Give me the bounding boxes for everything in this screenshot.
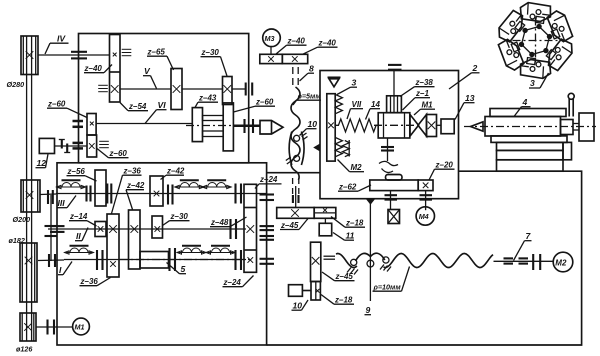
roller mid	[367, 260, 374, 267]
label 12	[36, 154, 49, 168]
clamp cross box	[388, 210, 400, 224]
sleeve between z43 and z60	[203, 116, 224, 121]
svg-text:Ø280: Ø280	[7, 80, 25, 89]
gear bar z40 right	[282, 54, 307, 63]
pawl housing	[386, 175, 403, 181]
coupling M1 shaft	[48, 320, 55, 335]
svg-text:z–60: z–60	[109, 149, 128, 158]
svg-text:VII: VII	[352, 100, 363, 109]
screw stub	[573, 124, 579, 131]
gear z30	[223, 77, 233, 105]
label IV	[45, 34, 69, 55]
label z24 top	[255, 175, 282, 189]
label z40 m3 left	[276, 37, 307, 55]
em clutch row I mid	[177, 246, 206, 254]
svg-text:M4: M4	[419, 212, 429, 221]
sliding gear block z40/z54	[110, 35, 121, 103]
shaft III from pulley	[40, 193, 56, 196]
svg-text:II: II	[76, 231, 81, 241]
coupling bars row III mid	[168, 185, 173, 205]
gear z56	[95, 170, 106, 206]
gear z43	[192, 108, 202, 142]
svg-text:12: 12	[37, 158, 47, 168]
quill body	[485, 117, 561, 137]
svg-text:z–48: z–48	[210, 218, 229, 227]
svg-text:z–20: z–20	[435, 161, 454, 170]
svg-text:z–45: z–45	[280, 221, 299, 230]
label z60 sleeve	[234, 98, 276, 113]
shaft I from pulley	[38, 259, 64, 262]
svg-text:z–42: z–42	[166, 167, 185, 176]
label z24 bottom	[223, 276, 254, 288]
coupling bars row III pre	[87, 186, 91, 202]
svg-text:ρ=10мм: ρ=10мм	[373, 283, 402, 292]
label z40	[84, 64, 113, 73]
interlock shaft III-I	[50, 195, 52, 261]
nut roller upper	[294, 135, 300, 141]
label z60 lower	[97, 149, 129, 159]
label M1 clutch	[414, 101, 435, 116]
svg-text:2: 2	[472, 63, 478, 73]
svg-text:z–30: z–30	[170, 212, 189, 221]
encoder box 13	[441, 119, 454, 134]
hatch under left roller	[347, 268, 358, 275]
wall bearing lower shaft	[73, 143, 84, 149]
gear z45 vertical	[311, 242, 321, 281]
row II shaft	[48, 228, 246, 230]
label z62	[338, 183, 371, 192]
shaft down to M4	[425, 191, 427, 211]
svg-text:ø126: ø126	[16, 345, 33, 354]
coupling to box 12	[62, 140, 67, 153]
coupling shaft VI at wall	[245, 119, 254, 133]
saddle arcs	[356, 253, 371, 261]
spline mark left on shaft V	[98, 85, 108, 91]
label z18 bar	[331, 217, 365, 228]
hatch under right roller	[380, 265, 391, 272]
svg-text:z–65: z–65	[147, 48, 166, 57]
svg-text:z–42: z–42	[126, 181, 145, 190]
nut saddle arcs on vertical screw	[289, 132, 292, 166]
coupling shaft V at wall	[246, 83, 253, 96]
worm gear z38 neck	[387, 96, 402, 113]
label 2	[449, 63, 480, 89]
em clutch row III mid	[175, 180, 204, 188]
spline mark leadscrew left	[324, 256, 336, 259]
em clutch row I left	[65, 246, 94, 254]
gear z60 lower	[87, 135, 97, 157]
motor M2	[553, 252, 573, 272]
feed gearbox housing	[57, 163, 267, 345]
vertical screw p=5mm	[291, 87, 300, 180]
cone clutch M1	[410, 115, 419, 137]
worm wheel teeth top	[335, 95, 342, 114]
gear z18 half-nut	[314, 208, 336, 219]
leadscrew wave left	[336, 254, 357, 268]
shaft V	[120, 88, 171, 90]
svg-text:z–56: z–56	[67, 167, 86, 176]
gear block z36	[107, 214, 119, 277]
svg-text:7: 7	[526, 231, 532, 241]
svg-text:z–38: z–38	[415, 78, 434, 87]
svg-text:z–36: z–36	[80, 277, 99, 286]
base step 4	[497, 160, 564, 171]
coupling bars row I c	[236, 250, 242, 270]
leadscrew shaft right	[494, 260, 554, 262]
gear z42 row III	[150, 176, 163, 206]
label 5	[167, 263, 187, 275]
motor M1 shaft	[36, 326, 73, 328]
svg-text:8: 8	[309, 64, 314, 74]
handwheel block	[579, 113, 594, 141]
label 8	[300, 64, 315, 82]
label 3 turret	[529, 73, 549, 88]
ratchet pawl	[379, 161, 398, 165]
svg-text:5: 5	[181, 264, 186, 274]
svg-text:4: 4	[522, 97, 528, 107]
em clutch row I right	[206, 246, 235, 254]
spindle arrow	[260, 121, 283, 135]
label p=5mm	[293, 92, 321, 106]
label II	[75, 228, 88, 242]
pulley D200	[21, 180, 40, 212]
label z42 first	[126, 181, 145, 210]
svg-text:VI: VI	[158, 100, 167, 110]
coupling bars row I a	[97, 250, 103, 270]
svg-text:3: 3	[530, 78, 535, 88]
gear bar z40 left	[260, 54, 283, 63]
svg-text:10: 10	[308, 119, 318, 129]
svg-text:13: 13	[465, 93, 475, 103]
base step 2	[497, 142, 564, 150]
shaft down from worm block	[387, 138, 389, 161]
wall bearing row II right	[260, 226, 275, 230]
label z30	[201, 48, 228, 76]
svg-text:z–36: z–36	[123, 167, 142, 176]
solenoid 11	[319, 218, 332, 236]
M3 shaft	[270, 47, 272, 55]
motor M3	[263, 29, 281, 47]
label M2 clutch	[338, 160, 365, 173]
shaft down to clamp	[390, 191, 392, 210]
label z1	[403, 89, 431, 110]
hydraulic down arrow	[328, 77, 341, 87]
em clutch row III right	[202, 180, 231, 188]
label z14	[69, 212, 97, 226]
label III	[57, 196, 77, 209]
coupling bars row I b	[170, 248, 176, 271]
svg-text:I: I	[59, 265, 62, 275]
svg-text:V: V	[144, 66, 151, 76]
electromagnet box 12	[39, 138, 54, 153]
shaft VII spring	[335, 119, 378, 132]
nut roller lower	[294, 155, 300, 161]
neck block	[561, 120, 574, 135]
label z43	[195, 94, 218, 108]
dead centre point	[471, 122, 484, 131]
gear bar z62	[370, 180, 418, 191]
coupling on interlock	[45, 226, 58, 236]
turret hexagon	[522, 27, 550, 55]
spline joint 7	[504, 258, 529, 263]
wall bearing top	[388, 65, 402, 70]
gear z20	[418, 180, 433, 191]
label VII	[347, 100, 363, 119]
gear z30 row II	[152, 216, 163, 238]
label z45	[322, 272, 355, 281]
coupling on shaft I	[49, 254, 55, 267]
solenoid box 10	[289, 285, 312, 297]
label z36 top	[112, 167, 142, 214]
coupling bars row II right	[231, 219, 237, 239]
shaft IV	[38, 54, 110, 56]
label z20	[429, 161, 455, 181]
gear z14	[95, 222, 106, 237]
worm wheel teeth bottom	[335, 138, 342, 157]
label z60 upper	[47, 100, 87, 118]
wall bearing shaft IV	[71, 52, 87, 59]
svg-text:III: III	[58, 198, 66, 208]
svg-text:z–18: z–18	[334, 296, 353, 305]
wall bearing aux right	[260, 236, 275, 240]
svg-text:z–43: z–43	[198, 94, 217, 103]
svg-text:z–24: z–24	[223, 278, 242, 287]
gear right of clutch	[427, 115, 437, 137]
label 13	[455, 93, 475, 120]
label z18	[321, 295, 354, 305]
nut hatch lower left	[286, 157, 292, 164]
leadscrew wave right	[384, 254, 494, 268]
svg-text:11: 11	[346, 231, 355, 241]
label z42 second	[161, 167, 185, 180]
turret jaws	[519, 2, 552, 25]
top plate	[490, 109, 566, 117]
tailstock centerline	[464, 126, 596, 128]
svg-text:Ø200: Ø200	[13, 215, 31, 224]
label 14	[366, 100, 381, 120]
label z56	[67, 167, 97, 181]
svg-text:M2: M2	[555, 258, 567, 267]
svg-text:14: 14	[371, 100, 380, 109]
shaft VI	[96, 123, 192, 125]
gear z60 on sleeve	[223, 103, 233, 151]
spline right of z60 lower	[99, 141, 109, 147]
svg-text:M1: M1	[75, 323, 85, 332]
vertical rod 9	[369, 199, 371, 301]
turret centerlines	[513, 40, 559, 42]
coupling above z45 bar	[293, 195, 299, 203]
gear z18 lower	[311, 282, 320, 301]
pulley D182	[20, 243, 37, 302]
wall bearing shaft VI	[73, 121, 84, 127]
wire feedbox to turret box	[267, 172, 320, 174]
motor M1	[73, 318, 90, 335]
sleeve row I	[140, 252, 169, 269]
svg-text:z–40: z–40	[84, 64, 103, 73]
svg-text:z–1: z–1	[415, 89, 429, 98]
roller right	[383, 257, 389, 263]
down arrow on box2 bottom	[366, 199, 376, 205]
gear bar z45	[277, 208, 315, 219]
svg-text:ø182: ø182	[9, 236, 25, 245]
label 7	[514, 231, 532, 261]
base step 3	[497, 150, 564, 159]
M2 clutch zigzag	[343, 140, 350, 157]
svg-text:z–40: z–40	[318, 39, 337, 48]
svg-text:10: 10	[293, 301, 303, 311]
label 4	[514, 97, 531, 117]
gear block z42	[129, 210, 141, 269]
label z38	[400, 78, 435, 97]
svg-text:z–30: z–30	[201, 48, 220, 57]
svg-text:z–14: z–14	[69, 212, 88, 221]
turret locking dots	[547, 34, 552, 39]
label VI	[145, 100, 167, 124]
svg-text:IV: IV	[57, 34, 66, 44]
label 10 screw	[300, 119, 318, 136]
label z40 m3 right	[303, 39, 338, 55]
pulley D126	[20, 313, 36, 341]
svg-text:z–54: z–54	[128, 102, 147, 111]
coupling on shaft III	[48, 190, 53, 204]
label V	[143, 66, 157, 89]
link to 13	[437, 124, 442, 126]
hand lever	[568, 93, 574, 116]
em clutch row III left	[57, 180, 86, 188]
label z48	[210, 217, 247, 227]
label 10 box	[292, 300, 309, 311]
svg-text:3: 3	[352, 78, 357, 88]
spline mark right of z40	[122, 49, 132, 55]
svg-text:z–60: z–60	[255, 98, 274, 107]
coupling M2	[533, 254, 540, 270]
label z65	[147, 48, 174, 71]
svg-text:ρ=5мм: ρ=5мм	[297, 92, 322, 101]
turret indexing shaft	[327, 94, 335, 161]
clamp bracket	[563, 142, 572, 159]
label p=10mm	[373, 267, 410, 292]
shaft 8 dashed	[293, 67, 298, 87]
label z54	[120, 102, 148, 111]
screw lower guides	[293, 178, 299, 200]
label z45 bar	[280, 219, 308, 230]
svg-text:M2: M2	[351, 163, 363, 172]
coupling bars row III right	[236, 184, 242, 204]
wall bearing row I right	[260, 259, 275, 264]
belt lines	[26, 36, 28, 341]
svg-text:9: 9	[366, 305, 371, 315]
svg-text:z–62: z–62	[338, 183, 357, 192]
svg-text:z–60: z–60	[47, 100, 66, 109]
pointer on turret box wall	[313, 144, 320, 152]
wall bearing row III right	[260, 195, 275, 201]
pulley D280	[21, 36, 38, 75]
svg-text:M1: M1	[422, 101, 434, 110]
svg-text:z–40: z–40	[287, 37, 306, 46]
machine bed outline	[267, 171, 582, 345]
wall bearing row II left	[50, 226, 65, 232]
label z36 bottom	[80, 277, 111, 286]
label 9	[365, 305, 372, 315]
turret drive housing 2	[320, 71, 459, 199]
svg-text:z–24: z–24	[259, 175, 278, 184]
gear block z24/z48/z24	[244, 184, 257, 272]
row I shaft	[64, 259, 246, 261]
lower shaft to box 12	[55, 145, 88, 147]
label 11	[333, 231, 355, 241]
roller left	[351, 259, 357, 265]
worm block housing	[378, 113, 410, 138]
svg-text:M3: M3	[265, 34, 275, 43]
label 3 turret shaft	[337, 78, 357, 95]
coupling bars row III	[107, 184, 111, 204]
svg-text:z–18: z–18	[345, 219, 364, 228]
speed gearbox housing	[79, 34, 249, 163]
shaft up through box top	[393, 71, 395, 96]
row III shaft	[56, 193, 266, 195]
nut hatch upper right	[302, 133, 308, 140]
gear z60 upper on shaft VI	[87, 114, 96, 136]
label z30 row II	[163, 212, 190, 226]
motor M4	[416, 207, 434, 225]
base step 1	[491, 136, 567, 143]
label I	[58, 262, 72, 276]
gear z65	[171, 69, 182, 110]
